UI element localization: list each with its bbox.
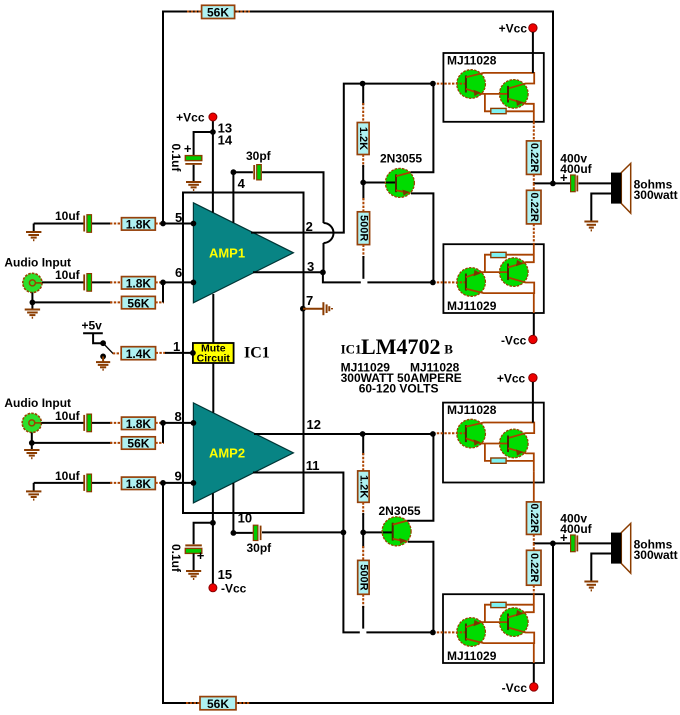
svg-text:0.1uf: 0.1uf [169,143,183,172]
wire mute to AMP1 [212,294,214,343]
svg-text:2: 2 [306,219,313,234]
node pin8 junction [160,420,166,426]
power -Vcc bottom dot [502,681,538,695]
resistor 56K input bias bottom [122,437,156,451]
label speaker ch2 [634,538,678,562]
transistor pair MJ11028 top box [443,53,543,122]
resistor 56K input bias top [122,296,156,310]
wire 1.8K to pin8 [155,422,193,424]
node pin15 junction [210,520,216,526]
label pin 6 [175,265,182,280]
svg-text:+5v: +5v [82,319,103,333]
speaker ch1 [611,163,631,213]
svg-text:2N3055: 2N3055 [379,504,421,518]
svg-text:300watt: 300watt [634,188,678,202]
node feedback/pin5 junction [160,221,166,227]
wire cap to 1.8K row5 [92,223,122,225]
ground pin7 sideways [303,302,332,315]
resistor 56K bottom feedback [186,697,250,711]
svg-text:0.22R: 0.22R [528,192,540,221]
wire ch2 output node [534,542,570,544]
node pin6 on AMP1 [191,280,197,286]
resistor 1.8K row5 [122,218,156,232]
label MJ11029 upper [447,299,497,313]
transistor 2N3055 bottom [379,504,421,546]
svg-text:+: + [184,141,192,156]
svg-text:5: 5 [175,210,182,225]
wire pin15 branch to 0.1uf bottom [194,523,213,544]
capacitor 30pf bottom [233,525,272,555]
svg-text:10: 10 [238,510,252,525]
capacitor 10uf row5 [55,209,92,232]
node jack shield junction bottom [29,440,35,446]
label pin 2 [306,219,313,234]
svg-text:14: 14 [218,133,233,148]
label pin 1 [173,339,180,354]
resistor 0.22R ch2 upper [527,502,542,544]
capacitor 30pf top [233,149,271,180]
wire MJ11029 bottom to -Vcc [533,643,535,683]
svg-text:AMP2: AMP2 [209,446,245,461]
svg-text:1.8K: 1.8K [126,417,152,431]
wire speaker ch2 return [591,554,611,581]
op-amp IC1 outline [183,193,304,514]
ground 0.1uf top [186,182,201,190]
label pin 15 [218,567,232,582]
node MJ11029 upper base junction [430,280,436,286]
wire jack to cap row8 [41,422,83,424]
wire cap to speaker ch2 [579,542,612,544]
node MJ11028 top base junction [430,81,436,87]
capacitor 0.1uf top [169,141,202,173]
svg-text:4: 4 [238,176,246,191]
wire jack to cap row6 [42,281,84,283]
resistor 0.22R ch2 lower [527,543,542,594]
svg-text:0.1uf: 0.1uf [169,544,183,573]
svg-text:MJ11029: MJ11029 [447,299,497,313]
svg-text:300watt: 300watt [634,548,678,562]
svg-text:6: 6 [175,265,182,280]
transistor pair MJ11029 bottom box [443,594,544,663]
wire pin3 output AMP1 [253,271,323,273]
resistor 500R top [357,183,369,279]
node pin5 on AMP1 [191,221,197,227]
node MJ11029 bottom base junction [430,630,436,636]
node pin8 on AMP2 [191,420,197,426]
transistor 2N3055 top [380,152,422,198]
wire speaker ch1 return [591,194,611,221]
svg-text:56K: 56K [127,296,149,310]
wire shield to 56K row [32,301,121,303]
svg-text:8: 8 [175,409,182,424]
node pin7 junction [300,306,306,312]
label pin 14 [218,133,233,148]
svg-text:IC1: IC1 [244,345,270,362]
svg-text:+: + [560,170,568,185]
svg-text:1: 1 [173,339,180,354]
wire 56K up to pin6 node [155,282,164,302]
svg-text:IC1: IC1 [341,341,362,356]
label pin 3 [307,259,314,274]
node pin4 junction [231,169,237,175]
label pin 11 [306,458,320,473]
op-amp AMP1 [193,203,293,303]
node ch2 output junction [550,541,556,547]
svg-text:-Vcc: -Vcc [501,334,527,348]
transistors Q MJ11028 top internals [433,70,534,122]
svg-text:10uf: 10uf [55,268,81,282]
wire row pin9 [34,482,84,484]
resistor 500R bottom [357,532,369,628]
svg-text:B: B [444,341,453,356]
ground 0.1uf bottom [186,571,201,579]
wire pin11 output AMP2 [253,473,343,533]
wire 30pf to pin3 node with hop over pin2 [262,172,334,272]
svg-text:3: 3 [307,259,314,274]
power -Vcc dot at pin15 [209,581,247,595]
node pin10 junction [231,530,237,536]
ground input row pin5 [26,224,41,241]
ground jack bottom [24,443,39,458]
svg-text:MJ11028: MJ11028 [447,403,497,417]
node jack shield junction [30,300,36,306]
capacitor 400uf ch1 [560,151,593,191]
wire pin13/14 +Vcc into AMP1 [212,120,214,213]
label pin 12 [307,417,321,432]
wire top feedback rail [163,12,553,224]
label spec line volts [359,382,439,396]
svg-text:0.22R: 0.22R [528,503,540,532]
wire +Vcc lower into MJ11028 [532,382,534,423]
label pin 7 [306,293,313,308]
wire pin15 into AMP2 [212,493,214,584]
svg-text:+Vcc: +Vcc [176,111,205,125]
transistor pair MJ11029 upper box [443,244,543,313]
svg-text:MJ11029: MJ11029 [447,649,497,663]
power +Vcc dot at pin13 [176,111,217,125]
svg-text:-Vcc: -Vcc [221,581,247,595]
svg-text:+: + [560,530,568,545]
svg-text:0.22R: 0.22R [528,553,540,582]
wire 1.8K to pin6 [155,281,193,283]
op-amp AMP2 [193,403,293,503]
svg-text:1.2K: 1.2K [357,127,369,150]
node pin6 junction [160,280,166,286]
label pin 8 [175,409,182,424]
wire 2N3055 bottom collector [407,434,433,521]
capacitor 400uf ch2 [560,511,593,551]
svg-text:11: 11 [306,458,320,473]
svg-text:1.4K: 1.4K [126,347,152,361]
svg-text:LM4702: LM4702 [361,334,440,359]
transistors Q MJ11029 bottom internals [433,594,534,646]
wire shield to 56K row bottom [32,442,122,444]
ground speaker ch2 [584,582,598,591]
wire bottom feedback rail [163,483,553,703]
label IC1 LM4702 B title [341,334,454,359]
svg-text:56K: 56K [127,437,149,451]
svg-text:10uf: 10uf [55,209,81,223]
svg-text:56K: 56K [207,697,229,711]
label spec line power [341,371,462,385]
wire mute to AMP2 [212,363,214,413]
wire MJ11029 upper to -Vcc [533,293,535,336]
svg-text:-Vcc: -Vcc [502,681,528,695]
label pin 4 [238,176,246,191]
svg-text:1.8K: 1.8K [126,477,152,491]
wire pin2 output AMP1 [251,84,433,233]
svg-text:0.22R: 0.22R [528,143,540,172]
wire base to 2N3055 top [363,182,395,184]
wire pin13 branch to 0.1uf [194,132,213,156]
svg-text:+Vcc: +Vcc [499,21,528,35]
svg-text:2N3055: 2N3055 [380,152,422,166]
resistor 1.8K row8 [122,417,156,431]
svg-text:10uf: 10uf [55,409,81,423]
wire cap to 1.8K row6 [92,281,122,283]
svg-text:12: 12 [307,417,321,432]
power +Vcc lower dot [497,371,537,385]
svg-text:AMP1: AMP1 [209,246,245,261]
svg-text:1.8K: 1.8K [126,277,152,291]
node pin3 junction [320,269,326,275]
label spec line transistors [341,361,460,375]
svg-text:15: 15 [218,567,232,582]
resistor 1.4K mute [113,347,167,361]
transistors Q MJ11029 upper internals [433,244,534,296]
label pin 5 [175,210,182,225]
label speaker ch1 [634,178,678,202]
transistors Q MJ11028 lower internals [433,419,534,471]
node 1.2K bottom junction [360,431,366,437]
label pin 9 [175,469,182,484]
wire 0.1uf bottom to ground [193,553,195,570]
power +Vcc top dot [499,21,537,35]
svg-text:1.2K: 1.2K [357,475,369,498]
transistor pair MJ11028 lower box [443,403,544,483]
wire 0.1uf to ground [193,165,195,182]
power -Vcc upper dot [501,334,537,348]
wire jack shield down [31,293,33,303]
resistor 1.2K bottom [357,434,369,532]
svg-text:Circuit: Circuit [197,352,231,364]
ground jack top [25,302,40,317]
audio jack bottom [22,413,41,432]
node pin1 junction [190,350,196,356]
capacitor 10uf row8 [55,409,92,432]
svg-text:500R: 500R [358,215,370,241]
svg-text:9: 9 [175,469,182,484]
wire cap to speaker ch1 [579,182,612,184]
svg-text:MJ11028: MJ11028 [447,54,497,68]
resistor 1.2K top [357,84,369,183]
node 2N3055 bottom base junction [360,530,366,536]
node ch1 output junction [550,181,556,187]
svg-text:1.8K: 1.8K [126,218,152,232]
svg-text:30pf: 30pf [246,149,272,163]
audio jack top [23,273,42,292]
wire 1.8K to pin5 [155,223,193,225]
svg-text:30pf: 30pf [247,541,273,555]
wire jack shield down bottom [31,433,33,443]
capacitor 10uf row6 [55,268,92,291]
svg-text:10uf: 10uf [55,469,81,483]
ground switch [96,356,110,369]
wire MJ11028 lower emitter rail extension [533,471,535,502]
node pin13/14 junction [210,129,216,135]
resistor 56K top feedback [187,5,250,19]
node pin11 drop junction [341,530,347,536]
svg-text:Audio Input: Audio Input [4,396,71,410]
resistor 0.22R ch1 lower [527,183,542,244]
wire cap to 1.8K row8 [92,422,122,424]
svg-text:500R: 500R [357,564,369,590]
capacitor 0.1uf bottom [169,544,205,573]
label pin 13 [218,121,232,136]
resistor 1.8K row9 [122,477,156,491]
svg-text:7: 7 [306,293,313,308]
node pin9 junction [160,480,166,486]
wire 1.8K to pin9 [155,482,193,484]
label Audio Input bottom [4,396,71,410]
wire pin10 feedback into AMP2 [232,483,234,533]
wire 2N3055 bottom emitter [408,542,434,633]
svg-text:+Vcc: +Vcc [497,371,526,385]
node pin9 on AMP2 [191,480,197,486]
label MJ11029 bottom [447,649,497,663]
label pin 10 [238,510,252,525]
ground speaker ch1 [584,222,598,231]
switch +5v assembly [82,319,114,360]
speaker ch2 [611,523,631,573]
wire pin4 feedback into AMP1 [232,172,234,223]
node MJ11028 lower base junction [430,431,436,437]
wire pin11 branch down to MJ11029 bottom rail [343,532,433,632]
wire base to 2N3055 bottom [363,531,391,533]
node 1.2K top junction [360,81,366,87]
wire 56K up to pin8 node [155,423,164,443]
wire ch1 output node [534,182,570,184]
wire 2N3055 top collector [411,84,434,173]
wire 30pf bottom to driver node [262,531,343,533]
resistor 0.22R ch1 upper [527,122,542,184]
capacitor 10uf row9 [55,469,92,492]
svg-text:56K: 56K [207,5,229,19]
wire pin3 down to driver rail [323,272,433,282]
label Audio Input top [4,256,71,270]
wire cap to 1.8K row9 [92,482,122,484]
mute circuit block [193,343,234,365]
resistor 1.8K row6 [122,277,156,291]
node 2N3055 top base junction [360,180,366,186]
svg-text:60-120 VOLTS: 60-120 VOLTS [359,382,439,396]
wire row pin5 [34,223,84,225]
wire 2N3055 top emitter [411,193,433,282]
wire +Vcc top into MJ11028 [532,32,534,73]
ground input row pin9 [26,483,41,500]
label IC1 beside mute [244,345,270,362]
wire pin12 output AMP2 [254,433,433,435]
wire 1.4K to mute pin1 [165,352,193,354]
svg-text:+: + [197,548,205,563]
